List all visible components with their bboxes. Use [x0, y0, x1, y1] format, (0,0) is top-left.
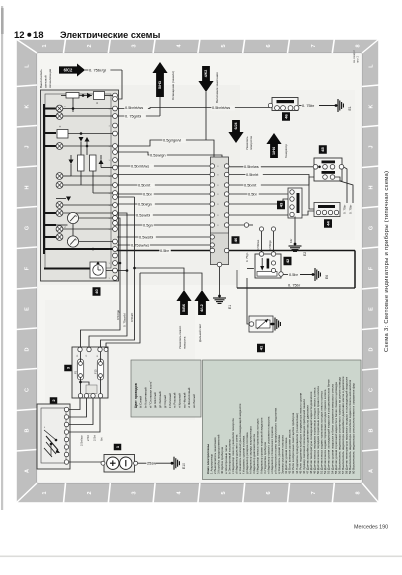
svg-text:1br: 1br	[289, 239, 293, 243]
wire 0.5sw/bl	[229, 211, 314, 215]
page scan bottom edge	[0, 556, 402, 558]
svg-text:поворотов: поворотов	[249, 136, 253, 150]
wire 0.5br (ground bus)	[117, 250, 210, 252]
decorative frame border	[16, 39, 379, 503]
resistor	[90, 155, 97, 171]
svg-text:E1: E1	[348, 106, 352, 110]
svg-text:0.5sw/bl: 0.5sw/bl	[136, 212, 150, 217]
svg-text:4/K2: 4/K2	[204, 70, 208, 78]
fuse F13	[97, 359, 103, 380]
instrument cluster unit 40	[41, 90, 119, 281]
svg-text:vi Фиолетовый: vi Фиолетовый	[187, 387, 191, 408]
indicator lamp	[56, 182, 63, 189]
svg-text:41: 41	[258, 345, 263, 350]
svg-text:0.5bl/ws: 0.5bl/ws	[256, 239, 260, 250]
svg-text:Генератор: Генератор	[284, 144, 288, 158]
svg-text:60 Выключатель индикатора сте: 60 Выключатель индикатора стеклоочистите…	[352, 383, 356, 474]
wire 0.75br/gr	[85, 69, 122, 71]
svg-text:el "Слоновая кость": el "Слоновая кость"	[148, 381, 152, 408]
ground at 41	[272, 323, 275, 326]
svg-text:46: 46	[283, 114, 288, 119]
svg-text:A: A	[25, 469, 31, 473]
svg-text:sw Чёрный: sw Чёрный	[182, 392, 186, 408]
svg-text:F13: F13	[94, 369, 98, 374]
svg-text:6rt: 6rt	[100, 437, 104, 441]
component key list box	[203, 360, 362, 480]
svg-text:0.5br/rt/ws: 0.5br/rt/ws	[212, 105, 230, 110]
svg-text:E10: E10	[182, 463, 186, 469]
svg-text:G: G	[25, 226, 31, 230]
svg-text:li Лиловый: li Лиловый	[168, 393, 172, 408]
svg-text:0. 75br: 0. 75br	[343, 205, 347, 214]
svg-text:Включение зажигания: Включение зажигания	[215, 72, 219, 103]
inner bottom bus	[44, 268, 90, 270]
relay 44	[314, 203, 340, 217]
svg-text:2: 2	[87, 44, 93, 47]
indicator lamp	[56, 143, 63, 150]
svg-text:5/B6: 5/B6	[182, 304, 186, 312]
svg-text:H: H	[25, 185, 31, 189]
svg-text:поворота: поворота	[183, 336, 187, 349]
svg-text:0. 75gr/bl: 0. 75gr/bl	[125, 113, 141, 118]
svg-text:1: 1	[42, 491, 48, 494]
svg-text:лист 2: лист 2	[357, 55, 360, 63]
wire 0.75br riser	[354, 251, 356, 289]
svg-text:40: 40	[94, 289, 99, 294]
svg-text:2: 2	[87, 491, 93, 494]
svg-text:K: K	[369, 104, 375, 108]
svg-text:6/C2: 6/C2	[64, 68, 73, 73]
svg-text:•: •	[44, 425, 45, 429]
svg-text:1/H4: 1/H4	[272, 146, 276, 155]
resistor (illumination rheostat)	[66, 93, 79, 99]
fuel tank sender 41	[249, 316, 273, 332]
svg-text:40: 40	[233, 237, 238, 242]
svg-text:43: 43	[278, 202, 283, 207]
wire 0.5br/rt	[229, 177, 314, 185]
svg-text:0.5bl: 0.5bl	[248, 191, 257, 196]
svg-text:bl Синий: bl Синий	[139, 396, 143, 408]
svg-text:0. 75br: 0. 75br	[288, 282, 301, 287]
svg-text:0. 75br/gr: 0. 75br/gr	[89, 67, 107, 72]
svg-text:ws Белый: ws Белый	[192, 394, 196, 408]
wire 2.5rt	[69, 398, 87, 417]
svg-text:0.5br/ws: 0.5br/ws	[244, 164, 259, 169]
svg-text:D: D	[25, 347, 31, 351]
svg-text:Указатель левого: Указатель левого	[178, 325, 182, 349]
svg-text:Mercedes 190: Mercedes 190	[354, 525, 388, 531]
fuse box 3	[64, 365, 72, 372]
svg-text:0.5br/rt: 0.5br/rt	[138, 182, 151, 187]
diode arrow	[66, 197, 71, 202]
vertical wires into 42	[261, 231, 263, 252]
sensor unit 43	[277, 201, 285, 210]
wire colour legend box	[131, 360, 201, 417]
svg-text:gn Зелёный: gn Зелёный	[158, 391, 162, 408]
ground E2	[294, 243, 297, 246]
ground E6	[312, 273, 315, 276]
indicator lamp	[56, 226, 63, 233]
svg-text:C: C	[369, 388, 375, 392]
ground wire to E1	[219, 267, 221, 296]
indicator lamp	[56, 113, 63, 120]
cluster label 40	[93, 287, 101, 296]
svg-text:rt Красный: rt Красный	[177, 393, 181, 408]
svg-text:0. 75sw/bl: 0. 75sw/bl	[123, 313, 127, 327]
svg-text:2.5rt/sw: 2.5rt/sw	[80, 435, 84, 446]
svg-text:E: E	[25, 307, 31, 311]
wire from 42 to 41	[247, 278, 249, 324]
wire 0.75br to E1	[299, 105, 302, 107]
wire to relay 44	[229, 199, 288, 204]
page scan left edge	[1, 6, 3, 510]
wire 0.5gr/gn/vi	[117, 140, 214, 157]
connector strip (cluster plug)	[211, 157, 229, 265]
svg-text:0.5bl/gn: 0.5bl/gn	[138, 201, 152, 206]
svg-text:0.75sw/ws: 0.75sw/ws	[131, 242, 149, 247]
svg-text:0.5br/rt: 0.5br/rt	[246, 172, 259, 177]
svg-text:0.5ws/bl: 0.5ws/bl	[139, 234, 153, 239]
svg-text:44: 44	[325, 221, 330, 226]
svg-text:6: 6	[266, 491, 272, 494]
wire 0.75gr/bl	[117, 115, 160, 117]
resistor	[78, 155, 85, 171]
plus box	[57, 130, 68, 139]
relay sub-box	[86, 385, 97, 394]
gauge (fuel)	[67, 212, 78, 223]
svg-text:7: 7	[311, 491, 317, 494]
svg-text:4/L2: 4/L2	[200, 304, 204, 312]
wire 0.5br/rt/ws top	[117, 108, 272, 109]
wire 0.5bl	[229, 193, 288, 195]
control box 4	[94, 92, 105, 100]
svg-text:H: H	[369, 185, 375, 189]
wires 0.75br from 45 to 44	[344, 167, 348, 203]
diode	[69, 160, 74, 165]
svg-text:br Коричневый: br Коричневый	[144, 387, 148, 408]
svg-text:1: 1	[42, 44, 48, 47]
wire from 4/L2	[106, 273, 140, 348]
svg-text:5: 5	[221, 491, 227, 494]
wire to battery	[69, 461, 104, 463]
clock	[90, 262, 106, 278]
svg-text:E6: E6	[325, 275, 329, 279]
svg-text:0.5bl/gn: 0.5bl/gn	[268, 240, 272, 250]
diode	[99, 160, 104, 165]
svg-text:Освещение (панели): Освещение (панели)	[171, 71, 175, 100]
ground E10	[171, 462, 174, 465]
diode pair	[79, 137, 84, 142]
wire 0.5bl/rt	[101, 197, 135, 347]
svg-text:6: 6	[266, 44, 272, 47]
indicator lamp	[56, 234, 63, 241]
svg-text:gr Серый: gr Серый	[163, 395, 167, 408]
svg-text:0.5bl/rt: 0.5bl/rt	[130, 313, 134, 322]
wire 0.5br/ws	[229, 166, 313, 168]
wire 0.5br to E6	[283, 274, 288, 276]
battery 1	[114, 444, 122, 451]
strip label 40	[232, 236, 240, 244]
svg-text:A: A	[369, 469, 375, 473]
ignition switch 2	[50, 397, 58, 404]
lighting feed arrow	[152, 62, 167, 97]
svg-text:0.5gn: 0.5gn	[143, 222, 153, 227]
connector arrow 6/C2 (hazard switch feed)	[59, 64, 85, 77]
warning buzzer 46	[272, 98, 298, 111]
svg-text:Дальний свет: Дальний свет	[198, 323, 202, 342]
svg-text:0. 75gn: 0. 75gn	[245, 252, 249, 262]
wire 2.5rt/sw	[69, 398, 80, 410]
wire 25sw to ground	[138, 462, 172, 464]
switch wafer	[46, 436, 58, 450]
high beam feed arrow 4/L2	[194, 290, 209, 315]
indicator lamp	[56, 105, 63, 112]
svg-text:+: +	[59, 125, 61, 129]
svg-text:Схема 3: Световые индикаторы и: Схема 3: Световые индикаторы и приборы (…	[384, 171, 390, 352]
wire 6rt	[69, 398, 100, 432]
wire 0.5gn	[229, 224, 246, 226]
turn indicator feed arrow 5/B6	[176, 290, 191, 315]
svg-text:C: C	[25, 388, 31, 392]
svg-text:0. 75br: 0. 75br	[302, 103, 315, 108]
svg-text:0. 75br: 0. 75br	[349, 205, 353, 214]
svg-text:8: 8	[356, 491, 362, 494]
wire 0.5rt/ge	[81, 218, 121, 347]
svg-text:ge Жёлтый: ge Жёлтый	[153, 392, 157, 408]
svg-text:5/H3: 5/H3	[158, 81, 162, 89]
ignition feed arrow 4/K2	[198, 66, 213, 92]
svg-text:0.5sw/gn: 0.5sw/gn	[150, 152, 166, 157]
wire 2.5rt	[69, 398, 93, 425]
svg-text:0.5br/rt/ws: 0.5br/rt/ws	[131, 163, 149, 168]
svg-text:J: J	[25, 145, 31, 148]
svg-text:45: 45	[320, 147, 325, 152]
svg-text:Выключатель: Выключатель	[39, 69, 43, 88]
svg-text:B: B	[25, 428, 31, 432]
svg-text:E2: E2	[303, 252, 307, 256]
indicator lamp	[56, 202, 63, 209]
svg-text:0.5br: 0.5br	[289, 272, 299, 277]
voltage stabiliser 42	[255, 254, 281, 278]
svg-text:0.5rt/ge: 0.5rt/ge	[116, 309, 120, 320]
indicator lamp	[56, 210, 63, 217]
gauge (temp)	[67, 236, 78, 247]
svg-text:6/J4: 6/J4	[234, 123, 238, 130]
svg-text:25sw: 25sw	[147, 461, 156, 466]
svg-text:2.5rt: 2.5rt	[86, 435, 90, 441]
svg-text:E1: E1	[228, 305, 232, 309]
svg-text:сигнализации: сигнализации	[48, 69, 52, 88]
svg-text:7: 7	[311, 44, 317, 47]
wire 0.5sw/gn	[117, 152, 222, 157]
generator arrow 1/H4	[266, 133, 281, 158]
wire 1br to E2	[294, 217, 296, 245]
svg-text:D: D	[369, 347, 375, 351]
svg-text:3: 3	[132, 44, 138, 47]
relay unit 45	[319, 145, 327, 154]
wires cluster to connector strip	[117, 165, 210, 167]
svg-text:J: J	[369, 145, 375, 148]
wire 0.5br/rt	[229, 175, 316, 210]
direction indicator arrow 6/J4	[228, 120, 243, 143]
svg-text:0.5br: 0.5br	[160, 248, 170, 253]
svg-text:E: E	[369, 307, 375, 311]
diode	[87, 93, 92, 98]
svg-text:K: K	[25, 104, 31, 108]
svg-text:3: 3	[132, 491, 138, 494]
wire 0.75sw/bl	[89, 213, 127, 347]
svg-text:0.5gr/gn/vi: 0.5gr/gn/vi	[163, 137, 181, 142]
svg-text:0.5bl: 0.5bl	[143, 191, 152, 196]
svg-text:световой: световой	[44, 75, 48, 88]
svg-text:5: 5	[221, 44, 227, 47]
svg-text:2.5rt: 2.5rt	[93, 435, 97, 441]
svg-text:0.5br/rt/ws: 0.5br/rt/ws	[125, 105, 143, 110]
fuse F5	[77, 359, 83, 380]
wire 0.5br bus right	[229, 250, 355, 252]
cluster connector pins	[113, 93, 118, 98]
svg-text:42: 42	[285, 258, 290, 263]
wire cluster supply bus	[43, 104, 45, 254]
svg-text:G: G	[369, 226, 375, 230]
svg-text:rs Розовый: rs Розовый	[173, 392, 177, 408]
svg-text:8: 8	[356, 44, 362, 47]
svg-text:B: B	[369, 428, 375, 432]
svg-text:0.5br/rt: 0.5br/rt	[244, 182, 257, 187]
ground E1	[335, 104, 338, 107]
svg-text:Цвет проводов: Цвет проводов	[134, 383, 138, 408]
stub wires to verticals	[117, 262, 120, 264]
indicator lamp	[56, 173, 63, 180]
